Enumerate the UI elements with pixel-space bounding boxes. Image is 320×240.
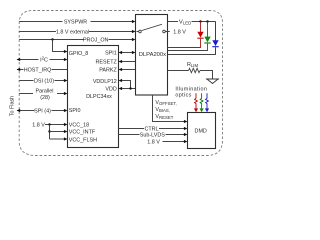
svg-text:1.8 V: 1.8 V — [32, 122, 45, 128]
wire VDDLP12 — [122, 81, 130, 89]
svg-text:1.8 V: 1.8 V — [147, 139, 160, 145]
wire SPI (4) — [17, 110, 64, 112]
svg-text:VBIAS,: VBIAS, — [155, 107, 170, 113]
svg-text:RLIM: RLIM — [187, 62, 198, 68]
svg-text:VCC_INTF: VCC_INTF — [69, 130, 96, 136]
projector module dashed boundary — [19, 11, 222, 156]
node LED rail green — [206, 20, 208, 22]
svg-text:DLPC34xx: DLPC34xx — [86, 94, 112, 100]
svg-text:RESETZ: RESETZ — [96, 59, 118, 65]
node VCC branch mid — [48, 130, 50, 132]
svg-text:VOFFSET,: VOFFSET, — [155, 100, 176, 106]
svg-text:SPI1: SPI1 — [105, 51, 117, 57]
wire HOST_IRQ — [17, 69, 68, 71]
svg-text:To Flash: To Flash — [9, 96, 15, 116]
wire CTRL — [119, 128, 185, 130]
wire VLED — [168, 21, 216, 23]
svg-text:1.8 V external: 1.8 V external — [56, 29, 89, 35]
wire 1.8 V external — [19, 31, 132, 33]
illumination ray red — [195, 93, 198, 108]
wire DSI (10) — [19, 80, 64, 82]
DMD — [188, 113, 216, 149]
node on PROJ_ON — [51, 38, 53, 40]
controller DLPC34xx — [68, 46, 119, 148]
svg-text:1.8 V: 1.8 V — [173, 29, 186, 35]
ground — [206, 78, 219, 80]
wire VOFFSET,VBIAS,VRESET to DMD — [153, 95, 185, 122]
wire SPI1 (bidirectional) — [122, 52, 132, 54]
wire PROJ_ON to GPIO_8 — [53, 40, 65, 52]
node VCC branch top — [48, 123, 50, 125]
illumination ray green — [200, 93, 203, 108]
svg-text:VRESET: VRESET — [155, 114, 173, 120]
svg-text:SYSPWR: SYSPWR — [64, 19, 87, 25]
svg-text:DLPA200x: DLPA200x — [139, 52, 166, 58]
wire VCC vertical — [49, 125, 51, 140]
illumination ray blue — [206, 93, 209, 108]
svg-text:PROJ_ON: PROJ_ON — [83, 37, 109, 43]
LED green — [207, 22, 209, 38]
svg-text:VLED: VLED — [179, 19, 191, 25]
LED red — [200, 22, 202, 33]
switch in DLPA200x — [139, 30, 142, 33]
wire Sub-LVDS — [119, 134, 185, 136]
wire to VCC_INTF — [50, 131, 65, 133]
svg-text:VDD: VDD — [105, 87, 116, 93]
svg-text:VDDLP12: VDDLP12 — [93, 79, 117, 85]
wire VDD — [122, 88, 135, 90]
node VDD junction — [129, 87, 131, 89]
LED blue — [215, 22, 217, 41]
wire SYSPWR — [19, 21, 132, 23]
wire switch to 1.8 V label — [165, 31, 170, 33]
svg-text:I2C: I2C — [40, 55, 48, 63]
svg-text:VCC_FLSH: VCC_FLSH — [69, 137, 97, 143]
svg-text:PARKZ: PARKZ — [99, 67, 117, 73]
wire I2C — [17, 59, 64, 61]
wire 1.8V to VCC_18 — [45, 124, 64, 126]
svg-text:GPIO_8: GPIO_8 — [69, 51, 88, 57]
svg-text:SPI0: SPI0 — [69, 108, 81, 114]
svg-text:(28): (28) — [40, 95, 50, 101]
svg-text:Parallel: Parallel — [36, 89, 54, 95]
svg-text:Sub-LVDS: Sub-LVDS — [140, 132, 165, 138]
wire PROJ_ON — [19, 39, 132, 41]
node LED rail red — [199, 20, 201, 22]
wire Parallel (28) — [19, 93, 64, 95]
svg-text:optics: optics — [175, 92, 191, 98]
PMIC DLPA200x — [136, 15, 168, 96]
wire PARKZ — [122, 69, 135, 71]
svg-text:SPI (4): SPI (4) — [34, 108, 51, 114]
svg-text:DMD: DMD — [195, 128, 207, 134]
svg-text:VCC_18: VCC_18 — [69, 123, 89, 129]
svg-text:HOST_IRQ: HOST_IRQ — [24, 67, 52, 73]
wire RESETZ — [122, 61, 135, 63]
wire to VCC_FLSH — [50, 138, 65, 140]
svg-text:DSI (10): DSI (10) — [34, 78, 54, 84]
